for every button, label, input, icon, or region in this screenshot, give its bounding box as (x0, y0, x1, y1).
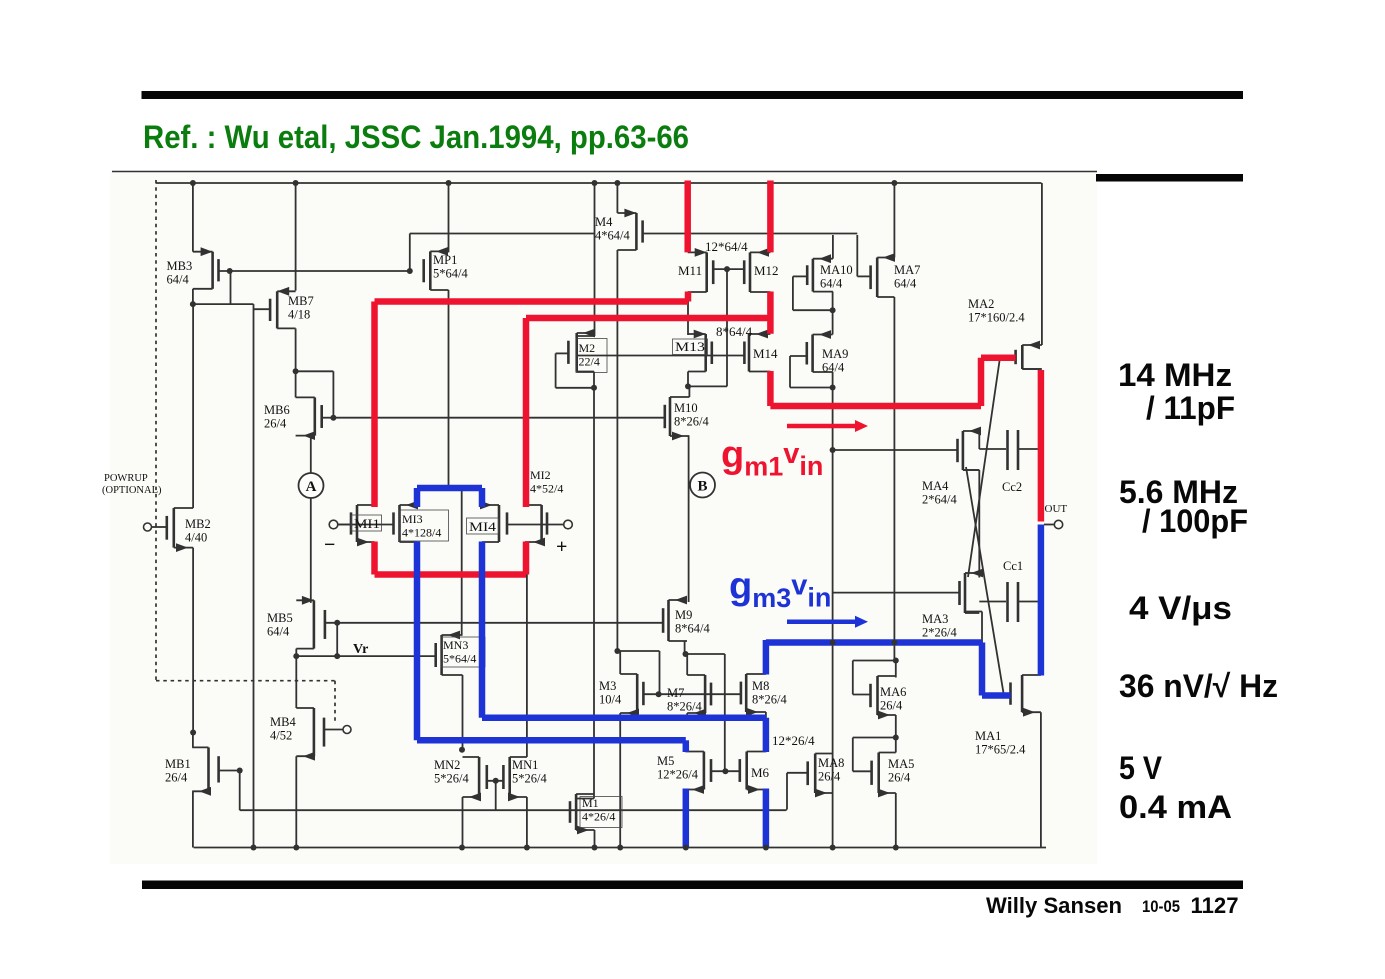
label MI3 value (400, 510, 449, 541)
label Cc2 (1002, 480, 1022, 494)
svg-text:M7: M7 (667, 686, 684, 700)
wire MA10 drain riser (832, 235, 834, 259)
node B (690, 473, 715, 498)
spec supply (1119, 750, 1163, 786)
svg-text:26/4: 26/4 (888, 771, 911, 785)
wire MB3-MP1 gate line (219, 270, 410, 272)
svg-text:MA6: MA6 (880, 685, 906, 699)
node A (299, 473, 324, 498)
wire MA7 source column (893, 297, 895, 661)
svg-text:5*64/4: 5*64/4 (433, 267, 468, 281)
label M5 value (657, 754, 699, 782)
wire M13 source bend (687, 372, 689, 387)
wire Vr node to MB4 drain (295, 656, 297, 708)
svg-text:MI3: MI3 (402, 512, 423, 526)
transistor MB2 (167, 508, 193, 552)
label MA7 value (894, 263, 920, 291)
svg-text:64/4: 64/4 (894, 277, 917, 291)
credit Willy Sansen (986, 893, 1239, 918)
wire input line right (507, 524, 564, 526)
svg-text:17*65/2.4: 17*65/2.4 (975, 743, 1026, 757)
transistor M7 (687, 675, 711, 717)
wire MN1 drain riser (526, 575, 528, 758)
transistor MN2 (463, 757, 487, 801)
wire M5-M6 gate tie (711, 770, 740, 772)
junction MA column ground (830, 845, 836, 851)
wire MA6 drain tie (895, 661, 897, 678)
transistor MA2 (1016, 341, 1042, 369)
wire blue OUT column (1038, 525, 1045, 676)
svg-text:4 V/μs: 4 V/μs (1129, 590, 1232, 626)
svg-text:14 MHz: 14 MHz (1118, 357, 1232, 393)
junction M13 source node (685, 383, 691, 389)
label gm3 vin (729, 566, 831, 614)
svg-text:MA2: MA2 (968, 297, 994, 311)
svg-text:MA5: MA5 (888, 757, 914, 771)
svg-text:0.4 mA: 0.4 mA (1119, 789, 1232, 825)
wire M1 drain arm tie (576, 798, 594, 800)
wire M10 drain riser (688, 386, 690, 397)
transistor MA4 (958, 427, 982, 470)
svg-text:MA9: MA9 (822, 347, 848, 361)
wire left long column to ground (253, 304, 255, 847)
bottom rule bar (142, 881, 1243, 890)
label MA2 value (968, 297, 1025, 325)
wire MN1-MN2 gate tie (487, 781, 504, 810)
terminal POWRUP input (144, 523, 167, 531)
svg-text:MB4: MB4 (270, 715, 296, 729)
wire MB2 source down (192, 548, 194, 733)
svg-text:M9: M9 (675, 608, 692, 622)
transistor MA9 (807, 330, 833, 372)
svg-text:MB6: MB6 (264, 403, 290, 417)
wire MP1 drain to VDD (448, 183, 450, 252)
red gm1 arrow (787, 420, 868, 432)
transistor MA5 (872, 753, 896, 798)
wire MA7 gate feed (857, 235, 869, 276)
label MP1 value (433, 253, 468, 281)
wire red MI1 drain to M11 (375, 292, 689, 508)
top-right rule bar (1096, 174, 1243, 182)
wire M1 source to ground (594, 830, 596, 848)
wire M11 source to red node (687, 292, 689, 302)
junction MB2-MB1 node (190, 730, 196, 736)
label M2 value (576, 339, 607, 373)
junction MP1 gate (407, 268, 413, 274)
transistor M8 (741, 674, 766, 716)
top rule bar (142, 91, 1244, 99)
svg-text:Cc1: Cc1 (1003, 559, 1023, 573)
junction blue right ground (763, 845, 769, 851)
junction MA9 source tie (830, 385, 836, 391)
wire MA3 source drop (965, 612, 982, 644)
wire M2 diode loop (556, 353, 594, 387)
label M3 value (599, 679, 622, 707)
wire M10 source to B (688, 436, 690, 602)
wire MB7 source to MB6 drain (295, 371, 297, 397)
transistor MI4 (480, 501, 507, 542)
label MB5 value (267, 611, 293, 639)
junction MB4 ground (293, 845, 299, 851)
junction M11-M12 gates (724, 266, 730, 272)
wire M3-M7-M8 gate line (643, 693, 741, 695)
svg-text:2*26/4: 2*26/4 (922, 626, 957, 640)
wire MB5-M9 gate line (325, 622, 663, 624)
wire MA7 drain to VDD (893, 183, 895, 258)
svg-text:8*26/4: 8*26/4 (752, 693, 787, 707)
svg-text:MA8: MA8 (818, 756, 844, 770)
label MI1 (352, 515, 382, 531)
wire M4 source node to gate tie (617, 651, 659, 694)
label MB4 value (270, 715, 296, 743)
junction MA5 drain (893, 735, 899, 741)
transistor MB4 (296, 708, 324, 761)
wire VDD top rail (156, 182, 1042, 184)
label 12*64/4 (705, 239, 748, 254)
label M6 (751, 765, 770, 780)
svg-text:8*26/4: 8*26/4 (674, 415, 709, 429)
svg-text:MB3: MB3 (167, 259, 193, 273)
junction M4-M3 node (614, 648, 620, 654)
transistor MN3 (436, 631, 463, 675)
svg-text:4*128/4: 4*128/4 (402, 526, 441, 540)
junction MA7 rail (891, 180, 897, 186)
label 12*26/4 (772, 733, 815, 748)
junction MA4 gate tap (830, 447, 836, 453)
wire cross coupling diagonal 1 (968, 358, 1000, 578)
wire MA6 diode loop (853, 661, 896, 695)
label M1 value (580, 796, 622, 828)
svg-text:26/4: 26/4 (818, 770, 841, 784)
transistor MB7 (270, 287, 296, 329)
spec 11pF (1146, 390, 1235, 426)
svg-text:64/4: 64/4 (167, 273, 190, 287)
transistor M11 (688, 248, 714, 292)
wire MA9 drain riser (832, 310, 834, 334)
wire M4 drain to VDD (616, 183, 618, 213)
label MA10 value (820, 263, 853, 291)
label MB3 value (167, 259, 193, 287)
transistor MB5 (296, 596, 325, 649)
svg-text:M6: M6 (751, 765, 770, 780)
wire MB4 source to ground (295, 756, 297, 847)
label MA5 value (888, 757, 914, 785)
capacitor Cc2 (1008, 430, 1041, 470)
wire MA9 source column (832, 372, 834, 848)
junction MN1 ground (524, 845, 530, 851)
wire MB1 drain up (192, 733, 194, 748)
wire M2 drain arm (577, 335, 595, 337)
junction M3 gate tie (656, 691, 662, 697)
junction MB5 stub bottom (334, 653, 340, 659)
label Vr (353, 642, 368, 657)
junction MN2 drain node (459, 747, 465, 753)
junction M4 rail (614, 180, 620, 186)
wire MN3 source drop (462, 675, 464, 750)
svg-text:MP1: MP1 (433, 253, 457, 267)
label M12 (754, 263, 779, 278)
wire red MI sources link (375, 542, 527, 575)
svg-text:MI2: MI2 (530, 468, 551, 482)
wire M11-M12 gate tie (713, 269, 744, 386)
spec slew rate (1129, 590, 1232, 626)
transistor M2 (568, 329, 595, 372)
transistor MN1 (503, 757, 527, 801)
svg-text:MB5: MB5 (267, 611, 293, 625)
label plus (556, 536, 567, 558)
label 8*64/4 (716, 324, 753, 339)
wire red M12 drain from VDD (767, 181, 774, 253)
svg-text:MI1: MI1 (354, 516, 380, 531)
terminal OUT (1044, 520, 1063, 528)
wire MB6 gate lead (322, 417, 334, 419)
svg-text:26/4: 26/4 (880, 699, 903, 713)
wire MA5 diode loop (853, 738, 896, 772)
junction MA9 drain node (830, 307, 836, 313)
transistor MA7 (871, 253, 895, 297)
wire MP1 source to tail node (448, 290, 450, 490)
svg-text:/ 100pF: / 100pF (1142, 503, 1248, 539)
svg-text:17*160/2.4: 17*160/2.4 (968, 311, 1025, 325)
svg-text:4*52/4: 4*52/4 (530, 482, 563, 496)
svg-text:4/52: 4/52 (270, 729, 292, 743)
svg-text:M4: M4 (595, 215, 613, 229)
wire blue MI3 source down (417, 542, 686, 848)
transistor M14 (744, 330, 770, 372)
label MI2 value (530, 468, 563, 496)
transistor MA10 (807, 254, 833, 291)
svg-text:A: A (306, 479, 317, 495)
svg-text:M2: M2 (579, 341, 596, 355)
svg-text:B: B (697, 478, 707, 494)
svg-text:MA4: MA4 (922, 479, 949, 493)
wire M2-M1 bias column (593, 388, 595, 799)
wire red M14 source to MA2 gate (770, 358, 1015, 406)
transistor M9 (663, 596, 687, 641)
svg-text:26/4: 26/4 (264, 417, 287, 431)
label gm1 vin (721, 434, 823, 482)
wire MA1 source to ground (1040, 712, 1042, 847)
svg-text:64/4: 64/4 (820, 277, 843, 291)
wire M9 node to M7 drain (686, 653, 725, 655)
svg-text:OUT: OUT (1045, 503, 1068, 515)
svg-text:1127: 1127 (1191, 893, 1239, 918)
svg-text:MA1: MA1 (975, 729, 1001, 743)
svg-text:MB2: MB2 (185, 517, 211, 531)
blue gm3 arrow (787, 616, 868, 628)
wire MA6 source link (895, 715, 897, 753)
wire MA4 gate line (833, 449, 958, 451)
label OPTIONAL (102, 485, 162, 496)
wire POWRUP dashed vertical (155, 180, 157, 681)
wire POWRUP dashed drop to MB4 gate (334, 681, 336, 722)
svg-text:M10: M10 (674, 401, 698, 415)
junction left column ground (251, 845, 257, 851)
label M8 value (752, 679, 787, 707)
figure frame top line (112, 171, 1097, 173)
wire Vr line to MN3 gate (296, 655, 435, 657)
junction M3 ground (617, 845, 623, 851)
junction MB3 gate tie (227, 268, 233, 274)
wire M13 node to gates riser (688, 385, 727, 387)
wire blue M8 drain to MA1 gate (766, 640, 1011, 696)
wire MA10 source bend (832, 292, 834, 311)
junction blue line tap right (891, 640, 897, 646)
spec 14MHz (1118, 357, 1232, 393)
transistor M12 (744, 248, 770, 292)
wire MA9 diode loop (790, 356, 833, 388)
wire MB7 gate lead (254, 308, 271, 310)
svg-text:22/4: 22/4 (579, 355, 600, 369)
junction MB7 source node (293, 368, 299, 374)
label MA9 value (822, 347, 848, 375)
spec current (1119, 789, 1232, 825)
wire MA10 diode loop (793, 276, 833, 310)
wire MA3 gate line (833, 592, 960, 594)
svg-text:MI4: MI4 (469, 519, 497, 534)
label MB7 value (288, 294, 314, 322)
wire POWRUP dashed horizontal (156, 680, 335, 682)
svg-text:MA7: MA7 (894, 263, 920, 277)
wire M3 source to ground (619, 713, 621, 848)
wire MN1 source to ground (526, 797, 528, 848)
svg-text:4*26/4: 4*26/4 (582, 810, 615, 824)
svg-text:12*64/4: 12*64/4 (705, 239, 748, 254)
wire MB6-M10 gate line (333, 417, 664, 419)
wire MB3 drain to VDD (192, 183, 194, 252)
wire MB1 source to ground (192, 791, 194, 847)
svg-text:5 V: 5 V (1119, 750, 1163, 786)
transistor M3 (620, 674, 643, 717)
svg-text:12*26/4: 12*26/4 (657, 768, 699, 782)
label POWRUP (104, 473, 148, 484)
label MN2 value (434, 758, 469, 786)
svg-text:5*26/4: 5*26/4 (512, 772, 547, 786)
label minus (324, 534, 335, 556)
svg-text:4/40: 4/40 (185, 531, 207, 545)
wire M7-M8 source link (687, 719, 766, 721)
wire M9 source bend (684, 641, 686, 654)
junction M2 rail (592, 180, 598, 186)
junction MB7 drain rail (293, 180, 299, 186)
label OUT (1045, 503, 1068, 515)
transistor MA8 (808, 754, 833, 798)
wire input line left (338, 524, 394, 526)
label MN1 value (512, 758, 547, 786)
wire MB3 source to MB2 drain (192, 304, 194, 508)
svg-text:36 nV/√ Hz: 36 nV/√ Hz (1119, 668, 1278, 704)
svg-text:M3: M3 (599, 679, 616, 693)
wire MA2 source arm (1022, 368, 1041, 370)
junction MB3 drain rail (190, 180, 196, 186)
svg-text:M5: M5 (657, 754, 674, 768)
svg-text:5*64/4: 5*64/4 (443, 652, 476, 666)
spec 100pF (1142, 503, 1248, 539)
wire red M11 drain from VDD (684, 181, 691, 253)
wire blue MI4 source down (482, 542, 766, 848)
wire cross coupling diagonal 2 (966, 467, 1004, 696)
capacitor Cc1 (979, 582, 1041, 622)
wire MB5 diode stub (336, 623, 338, 656)
svg-text:8*26/4: 8*26/4 (667, 700, 702, 714)
wire M13 drain riser (687, 302, 689, 336)
svg-text:Willy Sansen: Willy Sansen (986, 893, 1122, 918)
svg-text:Ref. : Wu etal, JSSC Jan.1994,: Ref. : Wu etal, JSSC Jan.1994, pp.63-66 (143, 119, 689, 155)
label MN3 value (441, 637, 485, 667)
label M4 value (595, 215, 630, 243)
svg-text:/ 11pF: / 11pF (1146, 390, 1235, 426)
svg-text:10/4: 10/4 (599, 693, 622, 707)
svg-text:8*64/4: 8*64/4 (716, 324, 753, 339)
svg-text:M13: M13 (675, 339, 705, 354)
wire MN3 drain riser (461, 490, 463, 635)
junction M9 source node (683, 651, 689, 657)
transistor MA1 (1011, 675, 1041, 717)
junction MA5 ground (893, 845, 899, 851)
terminal positive input (564, 520, 573, 529)
svg-text:MN1: MN1 (512, 758, 538, 772)
junction MN2 ground (459, 845, 465, 851)
transistor M10 (665, 397, 690, 440)
svg-text:−: − (324, 534, 335, 556)
wire MB5 source bend (295, 649, 297, 657)
svg-text:2*64/4: 2*64/4 (922, 493, 957, 507)
svg-text:(OPTIONAL): (OPTIONAL) (102, 485, 162, 496)
svg-text:12*26/4: 12*26/4 (772, 733, 815, 748)
label M11 (678, 263, 702, 278)
spec noise (1119, 668, 1278, 704)
svg-text:M12: M12 (754, 263, 779, 278)
transistor M5 (685, 752, 711, 794)
label MA8 value (818, 756, 844, 784)
wire M3 drain riser (619, 651, 621, 674)
wire MN2 source to ground (462, 797, 464, 848)
wire MP1 gate riser (409, 234, 411, 272)
svg-text:4/18: 4/18 (288, 308, 310, 322)
svg-text:10-05: 10-05 (1142, 898, 1180, 916)
transistor MP1 (424, 247, 449, 290)
junction MB5 stub top (334, 620, 340, 626)
transistor MB3 (193, 247, 219, 288)
wire M4 gate line right (643, 233, 858, 235)
wire M7 drain riser (686, 654, 688, 675)
terminal negative input (329, 520, 351, 529)
transistor MI3 (394, 501, 419, 542)
junction blue line tap left (830, 640, 836, 646)
svg-text:64/4: 64/4 (267, 625, 290, 639)
label M13 (673, 339, 708, 355)
svg-text:MB1: MB1 (165, 757, 191, 771)
wire node A to MB5 drain (310, 498, 312, 603)
wire blue tail staple (417, 488, 482, 507)
wire MB3 source down (192, 289, 194, 304)
wire MA4 source cascode (963, 470, 979, 578)
svg-text:Cc2: Cc2 (1002, 480, 1022, 494)
wire VDD corner to MA2 drain (1041, 183, 1043, 345)
title reference text (143, 119, 689, 155)
label MA3 value (922, 612, 957, 640)
transistor MI2 (525, 505, 547, 546)
label Cc1 (1003, 559, 1023, 573)
wire M2 drain to VDD (594, 183, 596, 336)
wire M7 source drop (686, 713, 688, 720)
label M10 value (674, 401, 709, 429)
svg-text:M11: M11 (678, 263, 702, 278)
transistor MA3 (960, 569, 984, 613)
label MB1 value (165, 757, 191, 785)
svg-text:5*26/4: 5*26/4 (434, 772, 469, 786)
terminal MB4 gate (324, 726, 351, 734)
